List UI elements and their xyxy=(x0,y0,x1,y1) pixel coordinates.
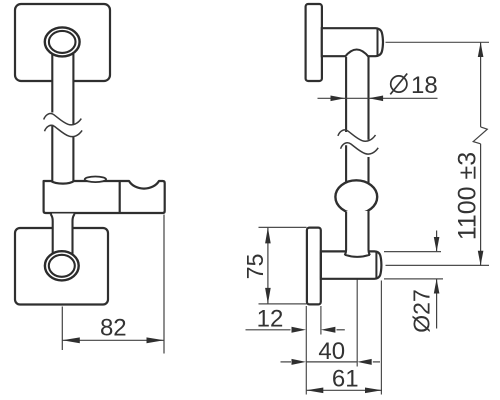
dim phi27 upper segment with down arrow xyxy=(436,231,438,252)
svg-text:75: 75 xyxy=(242,254,268,280)
dim 82 extension line left xyxy=(61,307,63,351)
lower wall plate (front) xyxy=(15,228,108,305)
top flange collar (front, double ring) xyxy=(45,27,80,56)
svg-text:82: 82 xyxy=(100,315,127,342)
ext line: plate bottom (for 75) xyxy=(259,303,307,305)
dim 82 line xyxy=(62,339,164,341)
svg-text:12: 12 xyxy=(257,305,284,332)
svg-text:40: 40 xyxy=(318,338,345,365)
ext line: lower arm axis (for 1100) xyxy=(386,264,490,266)
ext line: plate top (for 75) xyxy=(259,226,307,228)
ext line: top arm axis (for 1100) xyxy=(386,41,490,43)
slider block (shower head holder, front) xyxy=(44,181,165,213)
lower wall plate (side, edge-on bar) xyxy=(307,228,321,305)
dim phi18 line with arrows xyxy=(318,96,438,102)
top arm (side) with domed cap xyxy=(322,28,383,56)
dim phi27 lower segment with up arrow xyxy=(436,279,438,329)
lower arm (side) with domed cap xyxy=(321,251,382,278)
dim 1100 break zigzag xyxy=(473,127,487,144)
svg-text:1100 ±3: 1100 ±3 xyxy=(454,152,482,240)
break squiggle (front view) xyxy=(44,114,82,137)
top arm cap base line xyxy=(377,29,379,55)
ext line: lower arm bottom edge (for d27) xyxy=(384,278,443,280)
svg-text:Ø27: Ø27 xyxy=(409,289,435,332)
dim 75 line xyxy=(267,227,269,304)
dim 75 arrow up xyxy=(265,227,271,243)
slider ball (side) xyxy=(335,180,377,213)
slider divider line xyxy=(119,182,121,213)
ext line: lower arm top edge (for d27) xyxy=(384,251,441,253)
svg-text:18: 18 xyxy=(411,72,438,99)
ext line: tube axis below arm (for 40) xyxy=(356,280,358,367)
dim 61 line with inside arrows xyxy=(306,388,382,394)
top wall plate (front) xyxy=(15,4,110,81)
break squiggle (side view) xyxy=(338,130,378,154)
ext line: plate left face (for 12/40/61) xyxy=(305,306,307,395)
dim 82 arrow right xyxy=(147,337,165,343)
dim 82 arrow left xyxy=(62,337,80,343)
lower arm cap base line xyxy=(375,252,377,277)
lower flange collar (front, double ring) xyxy=(45,251,79,280)
upper tube segment (front) xyxy=(52,54,74,183)
lower tube segment with collar (front) xyxy=(51,214,75,256)
ext line: plate right face (for 12) xyxy=(320,306,322,335)
upper tube (side) with joint arch xyxy=(345,49,369,184)
dim 82 extension line right xyxy=(163,215,165,354)
slider knob (small ellipse on top) xyxy=(85,177,106,183)
top wall plate (side, edge-on bar) xyxy=(306,4,322,81)
dim phi18 arrow left (points right at tube) xyxy=(331,96,346,102)
dim 12 line with outside arrows xyxy=(246,327,345,333)
svg-text:61: 61 xyxy=(332,366,359,393)
dim 40 line with arrows xyxy=(281,359,381,365)
lower tube (side) into arm xyxy=(345,211,370,257)
dim 75 arrow down xyxy=(265,288,271,304)
dim 1100 line lower with down arrow xyxy=(480,144,482,266)
ext line: arm cap right edge (for 61) xyxy=(380,281,382,395)
dim phi18 arrow right (points left at tube) xyxy=(369,96,384,102)
dim phi18 text xyxy=(390,72,437,99)
dim 1100 line upper with up arrow xyxy=(480,42,482,127)
